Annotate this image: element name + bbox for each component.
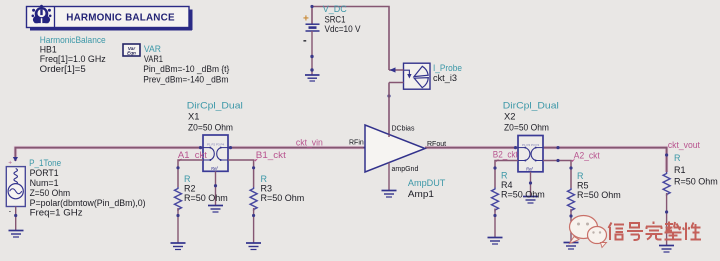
svg-text:Ref: Ref	[211, 166, 218, 171]
svg-text:Ref: Ref	[526, 166, 533, 171]
op-amp AmpDUT Amp1	[349, 125, 446, 190]
svg-text:R: R	[501, 170, 508, 180]
svg-text:R3: R3	[261, 183, 273, 193]
信	[609, 223, 625, 241]
wire X1 coupled right to R3	[228, 160, 254, 187]
svg-text:I_Probe: I_Probe	[433, 63, 462, 73]
svg-text:HB1: HB1	[40, 44, 57, 54]
svg-text:R5: R5	[577, 180, 589, 190]
ground under R3	[246, 243, 261, 250]
svg-text:R=50 Ohm: R=50 Ohm	[674, 176, 718, 186]
ground under R4	[488, 238, 503, 245]
svg-text:R=50 Ohm: R=50 Ohm	[184, 193, 228, 203]
svg-text:B1_ckt: B1_ckt	[256, 150, 287, 160]
ground under R1	[659, 246, 674, 253]
X2 ref ground	[523, 172, 538, 203]
wire X2 coupled right to R5	[543, 161, 571, 189]
node A1_ckt	[178, 150, 208, 161]
svg-text:+: +	[303, 14, 309, 25]
directional coupler X2	[514, 136, 560, 172]
HarmonicBalance label block	[40, 35, 106, 74]
svg-text:V_DC: V_DC	[323, 4, 347, 14]
ground under R5	[564, 243, 579, 250]
svg-text:HARMONIC BALANCE: HARMONIC BALANCE	[66, 12, 175, 23]
svg-text:RFin: RFin	[349, 139, 364, 146]
svg-text:+: +	[8, 160, 12, 167]
svg-text:DCbias: DCbias	[392, 125, 415, 132]
svg-text:Num=1: Num=1	[30, 178, 59, 188]
resistor R3	[250, 187, 257, 243]
P_1Tone PORT1	[6, 157, 25, 230]
R4 labels	[501, 170, 545, 199]
svg-text:SRC1: SRC1	[325, 14, 346, 24]
ground under R2	[171, 243, 186, 250]
resistor R1	[663, 153, 670, 245]
wire probe to amp DCbias	[388, 83, 390, 135]
svg-text:Freq[1]=1.0 GHz: Freq[1]=1.0 GHz	[40, 54, 106, 64]
pin arrow at RFin	[363, 145, 369, 150]
R1 labels	[674, 153, 718, 187]
X1 labels	[187, 101, 243, 133]
svg-text:R1: R1	[674, 165, 686, 175]
svg-text:ckt_i3: ckt_i3	[433, 73, 457, 83]
R3 labels	[261, 174, 305, 203]
amp labels	[408, 178, 446, 199]
ground under amp	[382, 191, 397, 198]
svg-text:P=polar(dbmtow(Pin_dBm),0): P=polar(dbmtow(Pin_dBm),0)	[30, 198, 146, 208]
svg-text:-: -	[303, 35, 307, 47]
resistor R5	[568, 188, 575, 242]
R5 labels	[577, 171, 621, 200]
wire V_DC top to probe	[312, 7, 389, 71]
svg-text:P_1Tone: P_1Tone	[29, 158, 61, 168]
X2 labels	[503, 101, 559, 133]
node A2_ckt	[571, 151, 600, 162]
svg-text:Z0=50 Ohm: Z0=50 Ohm	[504, 123, 549, 133]
harmonic balance title block	[27, 7, 193, 31]
svg-text:R: R	[261, 174, 268, 184]
directional coupler X1	[199, 135, 232, 171]
svg-text:B2_ckt: B2_ckt	[493, 150, 518, 160]
watermark logo (wechat bubbles)	[570, 216, 607, 248]
svg-text:HarmonicBalance: HarmonicBalance	[40, 35, 106, 45]
svg-text:Freq=1 GHz: Freq=1 GHz	[30, 207, 83, 217]
main wire: port to amp RFin	[15, 148, 365, 161]
svg-text:A1_ckt: A1_ckt	[178, 150, 208, 160]
svg-text:RFout: RFout	[427, 141, 446, 148]
svg-text:R=50 Ohm: R=50 Ohm	[501, 189, 545, 199]
HB controller icon	[32, 5, 52, 24]
svg-text:P1 P2 P3 P4: P1 P2 P3 P4	[522, 143, 540, 147]
svg-text:ckt_vout: ckt_vout	[668, 140, 700, 150]
resistor R4	[492, 188, 499, 238]
svg-text:Eqn: Eqn	[127, 51, 136, 56]
svg-text:R: R	[674, 153, 681, 163]
svg-text:R: R	[577, 171, 584, 181]
X1 ref ground	[208, 171, 223, 212]
svg-text:DirCpl_Dual: DirCpl_Dual	[503, 101, 559, 111]
svg-text:X1: X1	[188, 112, 200, 122]
完	[646, 222, 663, 240]
R2 labels	[184, 174, 228, 203]
svg-text:P1 P2 P3 P4: P1 P2 P3 P4	[207, 143, 225, 147]
svg-text:Vdc=10 V: Vdc=10 V	[325, 24, 362, 34]
resistor R2	[175, 187, 182, 243]
svg-text:R4: R4	[501, 180, 513, 190]
V_DC labels	[323, 4, 361, 34]
watermark text 信号完整性 drawn as vector strokes	[609, 222, 702, 241]
svg-text:PORT1: PORT1	[30, 168, 59, 178]
V_DC source SRC1	[303, 14, 320, 75]
ground under V_DC	[305, 75, 320, 81]
svg-text:AmpDUT: AmpDUT	[408, 178, 446, 188]
svg-text:X2: X2	[504, 112, 516, 122]
svg-text:Z=50 Ohm: Z=50 Ohm	[30, 188, 71, 198]
svg-text:ampGnd: ampGnd	[392, 166, 419, 173]
wire X2 coupled left to R4	[495, 161, 518, 188]
号	[627, 223, 643, 240]
svg-text:DirCpl_Dual: DirCpl_Dual	[187, 101, 243, 111]
svg-text:Amp1: Amp1	[408, 189, 434, 199]
VAR icon	[123, 44, 140, 56]
svg-text:R=50 Ohm: R=50 Ohm	[261, 193, 305, 203]
svg-text:R: R	[184, 174, 191, 184]
node B1_ckt	[254, 150, 286, 161]
I_Probe labels	[433, 63, 462, 83]
svg-text:R2: R2	[184, 183, 196, 193]
svg-text:R=50 Ohm: R=50 Ohm	[577, 190, 621, 200]
I_Probe ckt_i3	[387, 63, 430, 97]
ground under PORT1	[9, 231, 24, 238]
svg-text:Z0=50 Ohm: Z0=50 Ohm	[188, 123, 233, 133]
svg-text:A2_ckt: A2_ckt	[574, 151, 600, 161]
svg-text:Order[1]=5: Order[1]=5	[40, 64, 86, 74]
svg-text:VAR: VAR	[144, 44, 161, 54]
node dot at V_DC top corner	[310, 5, 313, 8]
VAR label block	[143, 44, 229, 84]
PORT1 labels	[29, 158, 146, 217]
svg-text:Pin_dBm=-10 _dBm {t}: Pin_dBm=-10 _dBm {t}	[143, 64, 229, 74]
整	[665, 222, 682, 240]
main wire: amp RFout to ckt_vout corner	[425, 148, 667, 172]
wire X1 coupled left to R2	[178, 160, 203, 187]
svg-text:Prev_dBm=-140 _dBm: Prev_dBm=-140 _dBm	[143, 74, 228, 84]
svg-text:ckt_vin: ckt_vin	[296, 137, 323, 147]
node B2_ckt	[493, 150, 518, 162]
svg-text:VAR1: VAR1	[144, 54, 163, 64]
性	[683, 223, 701, 241]
